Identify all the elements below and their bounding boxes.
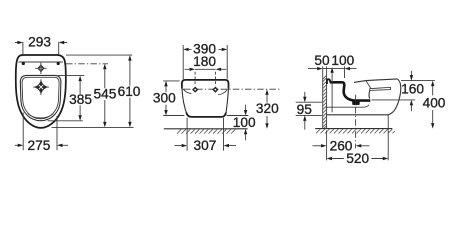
fixing hole dot right [57, 62, 60, 65]
svg-text:545: 545 [93, 87, 116, 102]
svg-text:520: 520 [346, 151, 369, 166]
wall (hatched strip) [323, 66, 327, 128]
dimension 520 [327, 151, 389, 166]
svg-text:400: 400 [423, 96, 446, 111]
svg-text:320: 320 [256, 101, 279, 116]
drain outlet block [352, 101, 360, 105]
centerline through fixing holes (545 level) [66, 63, 108, 65]
wall face extension (260/520 left) [326, 131, 328, 161]
svg-text:160: 160 [401, 82, 424, 97]
inner bowl rim outer [20, 75, 61, 120]
dimension 390 [183, 42, 227, 80]
dimension 610 [118, 55, 141, 127]
floor line (side view) [315, 128, 392, 130]
dimension 95 [296, 92, 322, 130]
bidet body outline (top view egg shape) [16, 55, 66, 128]
floor hatching (front view) [177, 129, 235, 134]
bowl back wall and bottom (section cut) [342, 82, 370, 101]
extension line top (610 level) [66, 54, 132, 56]
floor hatching (side view) [316, 129, 395, 134]
body bottom line (side view) [327, 114, 388, 116]
svg-text:610: 610 [118, 84, 141, 99]
bowl front wall [368, 90, 371, 98]
extension line bowl top (385 level) [58, 75, 85, 77]
centerline through fixing holes (front view) [184, 88, 281, 90]
dimension 275 [15, 113, 68, 153]
deck top band (section cut) [330, 81, 343, 84]
drain centerline (side view) [355, 95, 357, 148]
deck band (front view) [182, 80, 229, 89]
fixing hole marker right (front view) [212, 87, 218, 93]
body bottom [186, 113, 226, 117]
bidet back lip (section) [327, 79, 330, 84]
svg-text:307: 307 [193, 138, 216, 153]
body sides [182, 87, 229, 116]
dimension 545 [93, 64, 116, 128]
outer top edge (side view) [354, 79, 397, 83]
tap hole marker (diamond) [35, 63, 46, 74]
svg-text:50: 50 [314, 53, 330, 68]
pedestal sides + 307 extension lines [187, 118, 223, 151]
extension line body bottom (545/610 bottom) [52, 126, 134, 128]
drain marker (4-point star) [33, 79, 49, 95]
dimension 320 [256, 89, 279, 129]
dimension 100 (front view) [227, 105, 256, 141]
top extension line (160/400 level) [401, 80, 435, 82]
dimension 307 [175, 138, 236, 153]
fixing hole marker left (front view) [192, 87, 198, 93]
svg-text:293: 293 [28, 35, 51, 50]
extension line bowl bottom (385 bottom) [48, 120, 83, 122]
floor line (front view) [164, 128, 248, 130]
tap spout wedge [370, 87, 391, 90]
bottom extension line (160 level) [372, 99, 416, 101]
svg-text:95: 95 [297, 102, 313, 117]
svg-text:100: 100 [233, 115, 256, 130]
dimension 400 [423, 81, 446, 129]
dimension 385 [69, 76, 92, 121]
dimension 300 [153, 81, 184, 116]
svg-text:300: 300 [153, 91, 176, 106]
svg-text:385: 385 [69, 92, 92, 107]
pedestal front + 520 extension [387, 115, 389, 161]
deck recess back edge [366, 81, 371, 89]
svg-text:180: 180 [193, 54, 216, 69]
deck rear edge line [19, 61, 64, 63]
inner bowl rim inner [22, 77, 59, 119]
front face (side view) [388, 79, 401, 115]
svg-text:275: 275 [27, 138, 50, 153]
fixing hole dot left [22, 62, 25, 65]
dimension 180 [185, 54, 227, 86]
under-bowl contour [326, 105, 369, 107]
dimension 50 / 100 (side view top) [308, 53, 357, 78]
dimension 260 [313, 138, 370, 153]
bowl floor contour arc [28, 114, 54, 118]
deck corner contour arcs [183, 89, 228, 95]
dimension 160 [401, 71, 424, 111]
svg-text:100: 100 [331, 53, 354, 68]
fixing hole centerline (side view) [330, 67, 333, 112]
dimension 293 [15, 35, 67, 55]
